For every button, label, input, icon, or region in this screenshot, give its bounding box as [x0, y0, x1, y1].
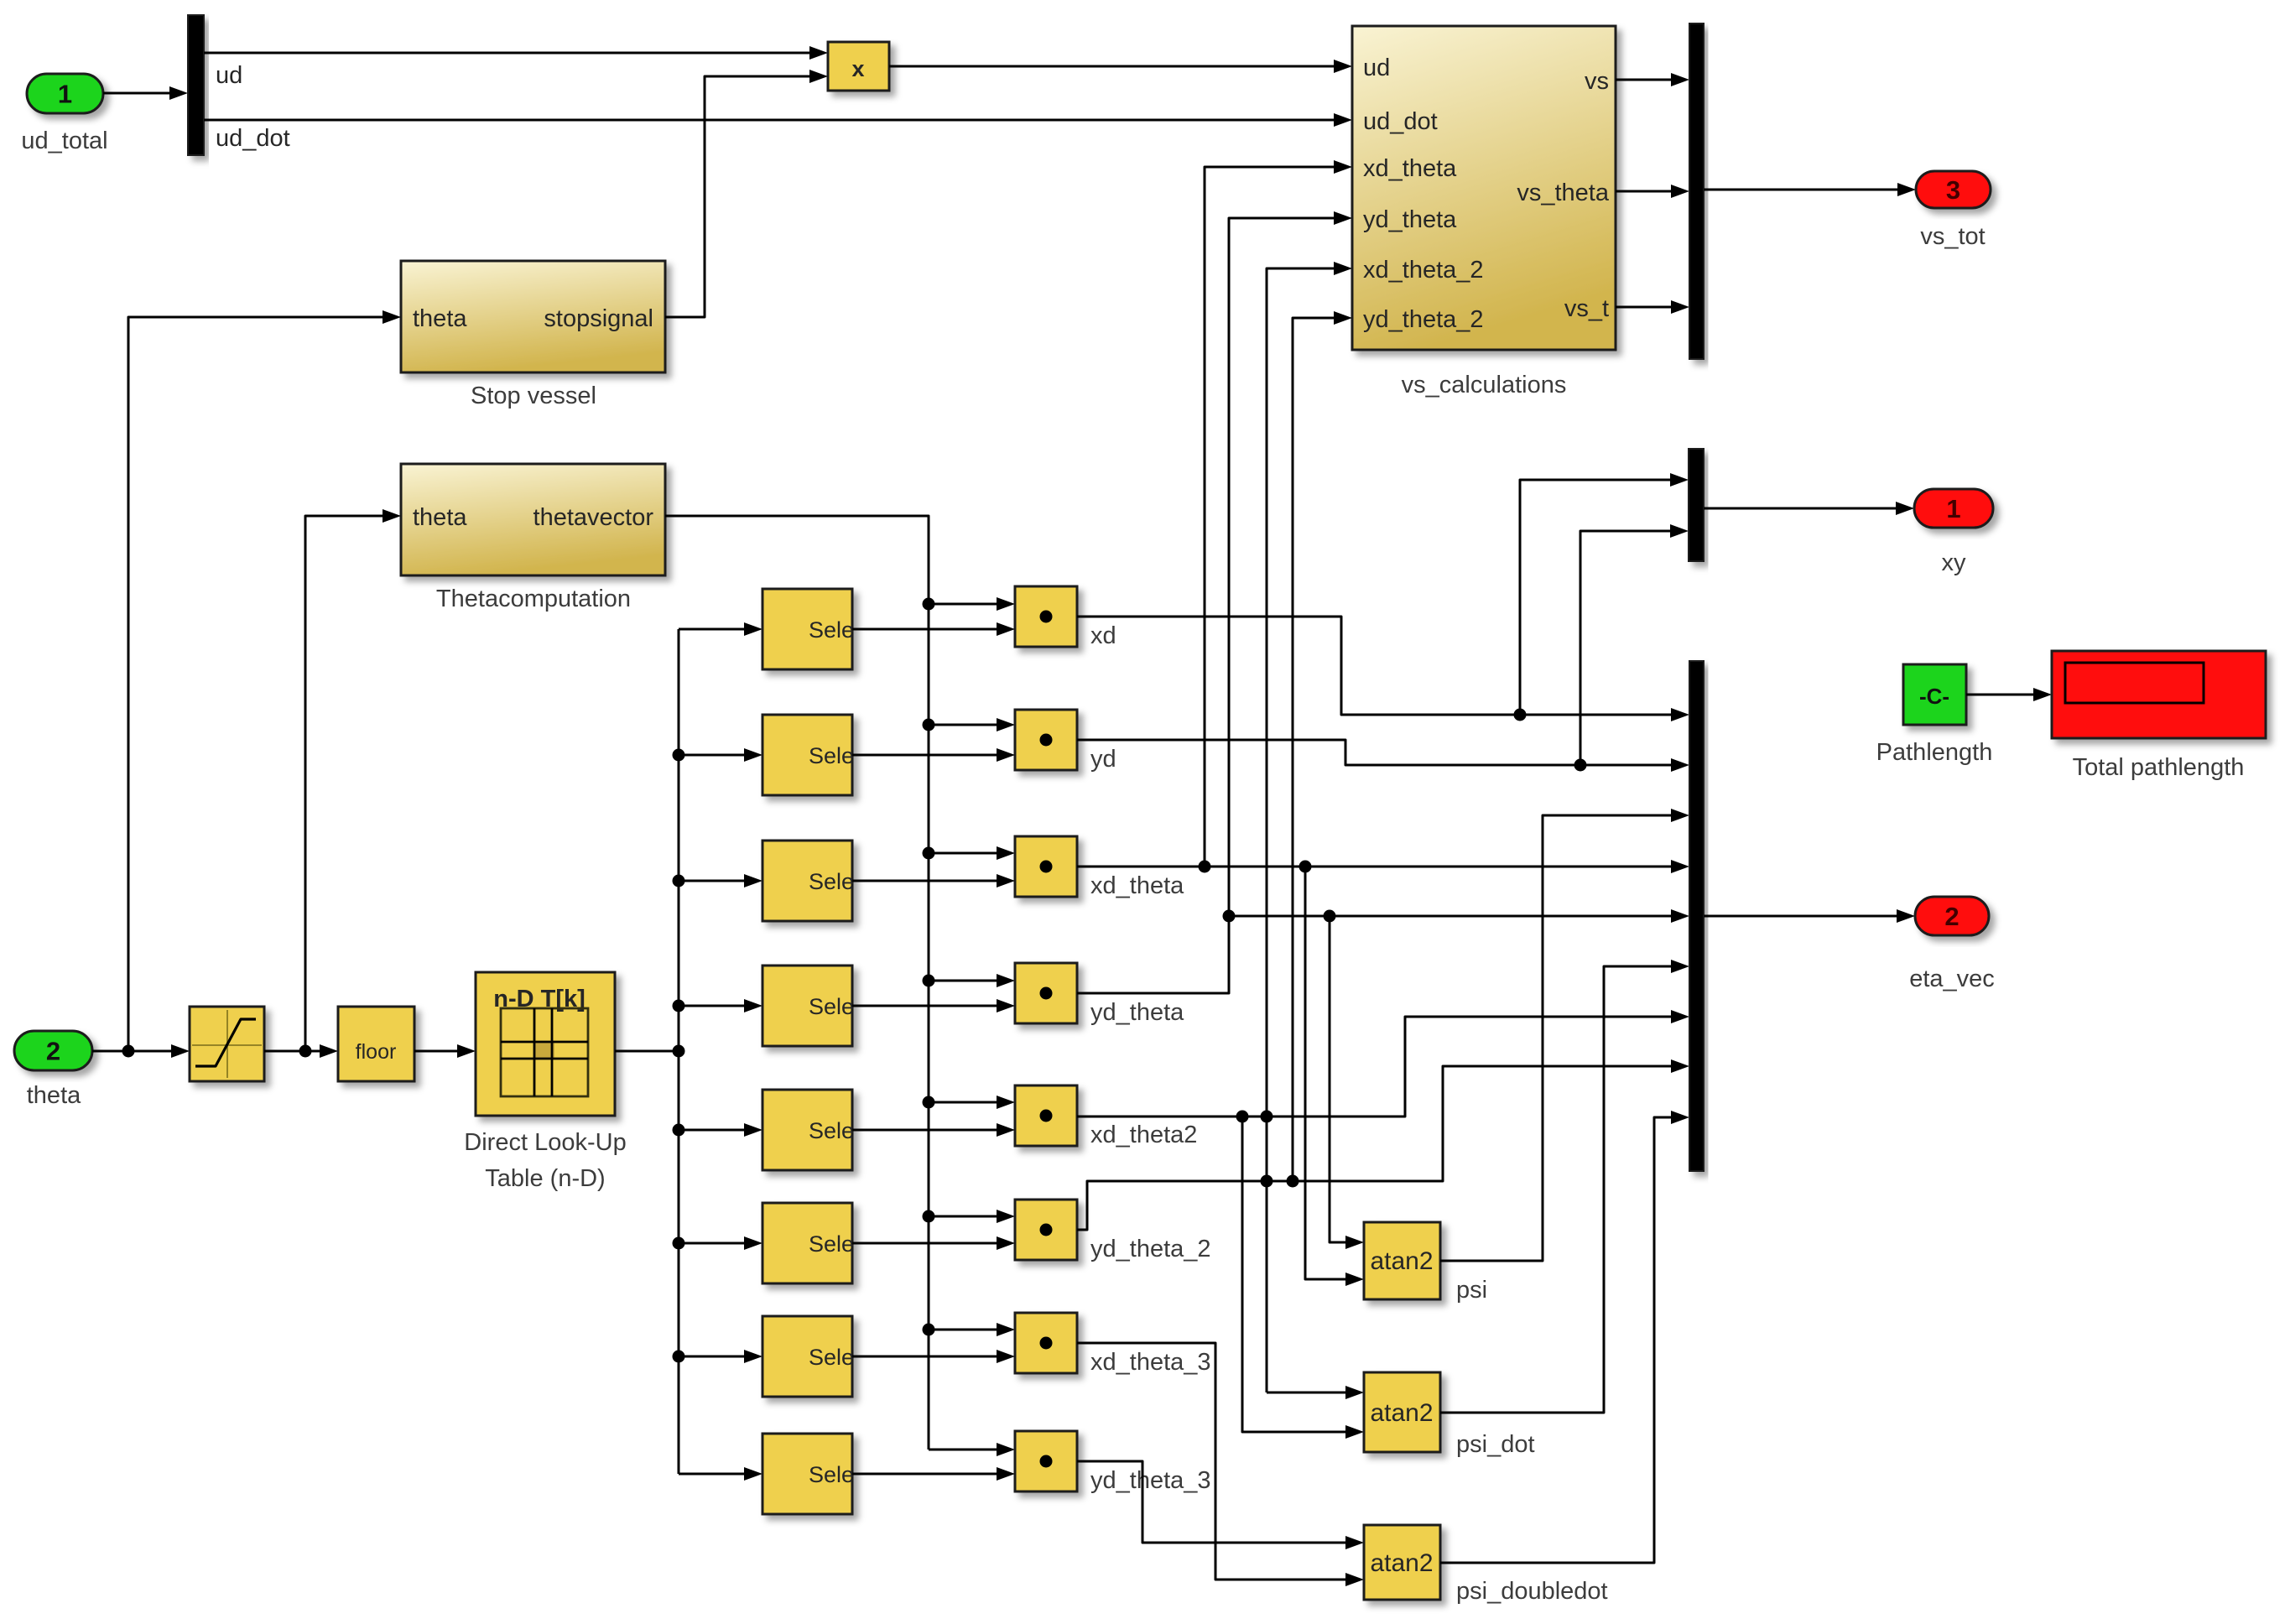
label psi [1456, 1277, 1487, 1304]
svg-text:xd_theta2: xd_theta2 [1090, 1122, 1197, 1148]
wire selector distribution bus [673, 622, 763, 1481]
wire xd_theta2 dropper to atan2 psi_dot in2 [1242, 1116, 1364, 1439]
inport 1 ud_total [21, 74, 107, 154]
wire demux ud to product [204, 46, 828, 60]
svg-text:Table (n-D): Table (n-D) [485, 1165, 605, 1192]
wire Sel7 out to dot product [852, 1350, 1015, 1363]
wire xd_theta2 riser and dropper to atan2 psi_dot in1 [1261, 262, 1365, 1399]
wire yd_theta dropper to atan2 psi in1 [1330, 916, 1364, 1249]
svg-text:theta: theta [413, 504, 467, 531]
svg-text:xd: xd [1090, 622, 1116, 649]
wire xd_theta2 to eta mux [1077, 1010, 1689, 1123]
label xy [1942, 549, 1967, 576]
wire mux to outport eta_vec [1704, 909, 1915, 923]
label psi_dot [1456, 1431, 1535, 1458]
svg-text:psi: psi [1456, 1277, 1487, 1304]
constant block Pathlength [1903, 664, 1966, 725]
wire yd_theta_2 riser to vs_calculations [1287, 311, 1353, 1188]
wire theta branch to Stop vessel [128, 310, 401, 1051]
dot product block yd_theta_3 [1015, 1431, 1077, 1491]
svg-text:xd_theta_2: xd_theta_2 [1363, 257, 1484, 284]
svg-text:Sele: Sele [809, 869, 854, 894]
wire yd to eta mux [1077, 740, 1689, 772]
label xd_theta [1090, 872, 1184, 899]
label yd_theta_2 [1090, 1236, 1211, 1262]
svg-text:xy: xy [1942, 549, 1967, 576]
wire mux to outport vs_tot [1704, 183, 1916, 196]
dot product block xd_theta_3 [1015, 1313, 1077, 1373]
mux vs_tot [1689, 23, 1704, 359]
wire psi to eta mux [1440, 809, 1689, 1261]
subsystem Stop vessel [401, 261, 665, 372]
dot product block xd_theta2 [1015, 1085, 1077, 1146]
svg-text:atan2: atan2 [1370, 1399, 1433, 1427]
dot product block yd [1015, 710, 1077, 770]
svg-text:ud_dot: ud_dot [1363, 108, 1438, 135]
svg-text:ud: ud [1363, 55, 1390, 81]
svg-text:Sele: Sele [809, 617, 854, 643]
wire xd_theta_3 to atan2 psi_doubledot in2 [1077, 1343, 1364, 1586]
svg-text:2: 2 [46, 1037, 60, 1066]
wire xd_theta dropper to atan2 psi in2 [1305, 867, 1364, 1286]
svg-text:ud: ud [216, 62, 242, 89]
svg-text:yd_theta: yd_theta [1090, 999, 1184, 1026]
svg-text:vs_calculations: vs_calculations [1402, 372, 1567, 398]
svg-text:atan2: atan2 [1370, 1247, 1433, 1275]
svg-text:stopsignal: stopsignal [544, 305, 653, 332]
svg-text:psi_doubledot: psi_doubledot [1456, 1578, 1608, 1605]
wire psi_dot to eta mux [1440, 960, 1689, 1413]
wire vs_theta to mux [1616, 185, 1689, 198]
demux Demux1 [188, 15, 204, 155]
mux xy [1689, 449, 1704, 561]
wire psi_doubledot to eta mux [1440, 1111, 1689, 1563]
wire yd_theta to eta mux [1229, 909, 1689, 923]
svg-text:Sele: Sele [809, 994, 854, 1019]
label Stop vessel [471, 383, 596, 409]
svg-text:Pathlength: Pathlength [1876, 739, 1993, 766]
selector block Sel2 [762, 715, 854, 795]
svg-text:ud_dot: ud_dot [216, 125, 290, 152]
wire Sel2 out to dot product [852, 748, 1015, 762]
label vs_calculations [1402, 372, 1567, 398]
label eta_vec [1909, 966, 1995, 992]
svg-text:Thetacomputation: Thetacomputation [436, 586, 631, 612]
wire mux to outport xy [1704, 502, 1914, 515]
label Total pathlength [2073, 754, 2245, 781]
svg-text:vs_tot: vs_tot [1920, 223, 1985, 250]
svg-text:Sele: Sele [809, 1231, 854, 1257]
wire xd to eta mux [1077, 617, 1689, 721]
svg-text:atan2: atan2 [1370, 1549, 1433, 1577]
svg-text:vs: vs [1585, 68, 1609, 95]
atan2 block psi_doubledot [1364, 1525, 1440, 1600]
dot product block yd_theta [1015, 963, 1077, 1023]
label yd [1090, 746, 1116, 773]
demux output label ud_dot [216, 125, 290, 152]
product block x [828, 42, 889, 91]
wire Pathlength to display [1966, 688, 2052, 701]
subsystem Thetacomputation [401, 464, 665, 575]
atan2 block psi [1364, 1222, 1440, 1299]
svg-text:eta_vec: eta_vec [1909, 966, 1995, 992]
svg-text:Sele: Sele [809, 1462, 854, 1487]
wire Sel5 out to dot product [852, 1123, 1015, 1137]
wire Sel4 out to dot product [852, 999, 1015, 1012]
wire Sel8 out to dot product [852, 1467, 1015, 1481]
label xd [1090, 622, 1116, 649]
svg-text:ud_total: ud_total [21, 128, 107, 154]
svg-text:x: x [851, 56, 864, 81]
outport 2 eta_vec [1915, 897, 1989, 935]
selector block Sel3 [762, 841, 854, 921]
mux eta_vec [1689, 661, 1704, 1171]
svg-text:yd_theta_3: yd_theta_3 [1090, 1467, 1211, 1494]
floor block [338, 1007, 414, 1081]
svg-text:theta: theta [27, 1082, 81, 1109]
label xd_theta2 [1090, 1122, 1197, 1148]
wire vs_t to mux [1616, 300, 1689, 314]
label yd_theta [1090, 999, 1184, 1026]
svg-text:xd_theta: xd_theta [1090, 872, 1184, 899]
svg-text:yd: yd [1090, 746, 1116, 773]
svg-text:1: 1 [1946, 494, 1960, 523]
selector block Sel8 [762, 1434, 854, 1514]
wire lookup to selector distribution [615, 1045, 685, 1058]
selector block Sel1 [762, 589, 854, 669]
atan2 block psi_dot [1364, 1372, 1440, 1452]
svg-text:xd_theta_3: xd_theta_3 [1090, 1349, 1211, 1376]
demux output label ud [216, 62, 242, 89]
label vs_tot [1920, 223, 1985, 250]
svg-text:yd_theta_2: yd_theta_2 [1090, 1236, 1211, 1262]
display block Total pathlength [2052, 651, 2266, 738]
wire vs to mux [1616, 73, 1689, 86]
wire saturation to floor [264, 1044, 338, 1058]
svg-text:Sele: Sele [809, 743, 854, 768]
label Thetacomputation [436, 586, 631, 612]
svg-text:Total pathlength: Total pathlength [2073, 754, 2245, 781]
wire thetavector bus [665, 516, 1015, 1456]
wire xd_theta riser to vs_calculations [1205, 160, 1352, 867]
inport 2 theta [14, 1031, 92, 1109]
svg-text:2: 2 [1944, 902, 1959, 931]
label psi_doubledot [1456, 1578, 1608, 1605]
svg-text:-C-: -C- [1919, 684, 1949, 709]
svg-text:floor: floor [356, 1040, 397, 1064]
Direct Look-Up Table block [476, 972, 615, 1116]
wire xd branch to xy mux [1520, 473, 1689, 715]
svg-text:yd_theta: yd_theta [1363, 206, 1457, 233]
dot product block xd [1015, 586, 1077, 647]
dot product block yd_theta_2 [1015, 1200, 1077, 1260]
wire Sel1 out to dot product [852, 622, 1015, 636]
wire product out to vs_calculations ud [889, 60, 1352, 73]
wire yd_theta riser [1077, 211, 1352, 993]
svg-text:thetavector: thetavector [533, 504, 654, 531]
wire ud_total to demux [103, 86, 188, 100]
dot product block xd_theta [1015, 836, 1077, 897]
wire Sel6 out to dot product [852, 1236, 1015, 1250]
svg-text:Sele: Sele [809, 1118, 854, 1143]
wire xd_theta to eta mux [1077, 860, 1689, 873]
svg-text:3: 3 [1946, 175, 1960, 205]
wire yd_theta_2 to eta mux [1077, 1059, 1689, 1230]
wire yd_theta_3 to atan2 psi_doubledot in1 [1077, 1461, 1364, 1549]
label yd_theta_3 [1090, 1467, 1211, 1494]
wire saturation branch to Thetacomputation [305, 509, 401, 1051]
selector block Sel4 [762, 966, 854, 1046]
selector block Sel5 [762, 1090, 854, 1170]
svg-text:vs_t: vs_t [1564, 295, 1609, 322]
subsystem vs_calculations [1352, 26, 1616, 350]
selector block Sel6 [762, 1203, 854, 1283]
outport 1 xy [1914, 489, 1993, 528]
wire yd branch to xy mux [1580, 524, 1689, 765]
svg-text:yd_theta_2: yd_theta_2 [1363, 306, 1484, 333]
svg-text:psi_dot: psi_dot [1456, 1431, 1535, 1458]
label xd_theta_3 [1090, 1349, 1211, 1376]
label Direct Look-Up Table [464, 1129, 626, 1192]
svg-text:vs_theta: vs_theta [1517, 180, 1609, 206]
label Pathlength [1876, 739, 1993, 766]
svg-text:Stop vessel: Stop vessel [471, 383, 596, 409]
svg-text:theta: theta [413, 305, 467, 332]
svg-text:xd_theta: xd_theta [1363, 155, 1457, 182]
wire stopsignal to product in2 [665, 70, 828, 317]
wire demux ud_dot to vs_calculations [204, 113, 1352, 127]
selector block Sel7 [762, 1316, 854, 1397]
saturation block [190, 1007, 264, 1081]
wire floor to lookup [414, 1044, 476, 1058]
svg-text:Direct Look-Up: Direct Look-Up [464, 1129, 626, 1156]
svg-text:Sele: Sele [809, 1345, 854, 1370]
svg-text:1: 1 [58, 80, 72, 109]
wire Sel3 out to dot product [852, 874, 1015, 887]
outport 3 vs_tot [1916, 171, 1991, 208]
wire theta to saturation [92, 1044, 190, 1058]
